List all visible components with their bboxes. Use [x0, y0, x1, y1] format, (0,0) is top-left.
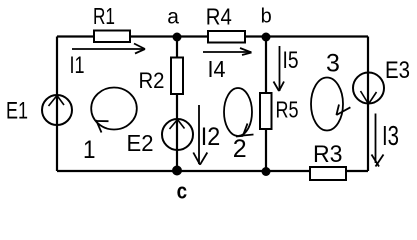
current arrow I5: [274, 46, 285, 91]
junction dot at bottom of branch b: [262, 167, 271, 176]
current arrow I4: [203, 48, 252, 55]
resistor R4: [208, 31, 245, 43]
svg-text:I3: I3: [382, 120, 399, 151]
wire: bottom rail: [57, 170, 368, 172]
node c junction dot: [172, 166, 182, 176]
svg-text:a: a: [167, 6, 179, 29]
loop 3 arrow ellipse: [311, 78, 350, 131]
svg-text:2: 2: [233, 135, 247, 163]
loop 2 arrow ellipse: [224, 88, 254, 137]
wire: middle branch a-c: [176, 37, 178, 172]
resistor R2: [171, 58, 183, 95]
wire: right rail: [367, 37, 369, 172]
svg-text:R2: R2: [139, 68, 165, 93]
loop 1 arrow circle: [91, 88, 137, 133]
svg-text:E1: E1: [6, 98, 28, 125]
svg-text:E3: E3: [385, 57, 410, 84]
svg-text:3: 3: [326, 49, 340, 77]
svg-text:I1: I1: [70, 52, 85, 79]
wire: left rail: [56, 37, 58, 172]
svg-text:c: c: [177, 179, 188, 201]
node a junction dot: [173, 33, 182, 42]
source E1: [42, 95, 72, 125]
current arrow I3: [372, 114, 384, 167]
current arrow I1: [72, 44, 145, 54]
svg-text:R5: R5: [276, 97, 299, 123]
svg-text:R3: R3: [313, 141, 343, 168]
svg-text:R4: R4: [206, 4, 232, 30]
svg-text:R1: R1: [93, 3, 115, 29]
source E2: [162, 119, 193, 150]
wire: top rail from left corner to right corner: [57, 35, 368, 37]
source E3: [353, 73, 384, 105]
svg-text:b: b: [261, 6, 272, 28]
node b junction dot: [262, 33, 271, 42]
resistor R5: [260, 93, 272, 129]
current arrow I2: [193, 105, 207, 165]
svg-text:I5: I5: [283, 47, 299, 74]
resistor R1: [94, 31, 130, 43]
svg-text:1: 1: [83, 136, 96, 164]
svg-text:E2: E2: [127, 130, 154, 156]
resistor R3: [310, 167, 346, 180]
wire: branch b down to bottom rail: [265, 37, 267, 172]
svg-text:I4: I4: [208, 56, 226, 82]
svg-text:I2: I2: [201, 123, 221, 151]
